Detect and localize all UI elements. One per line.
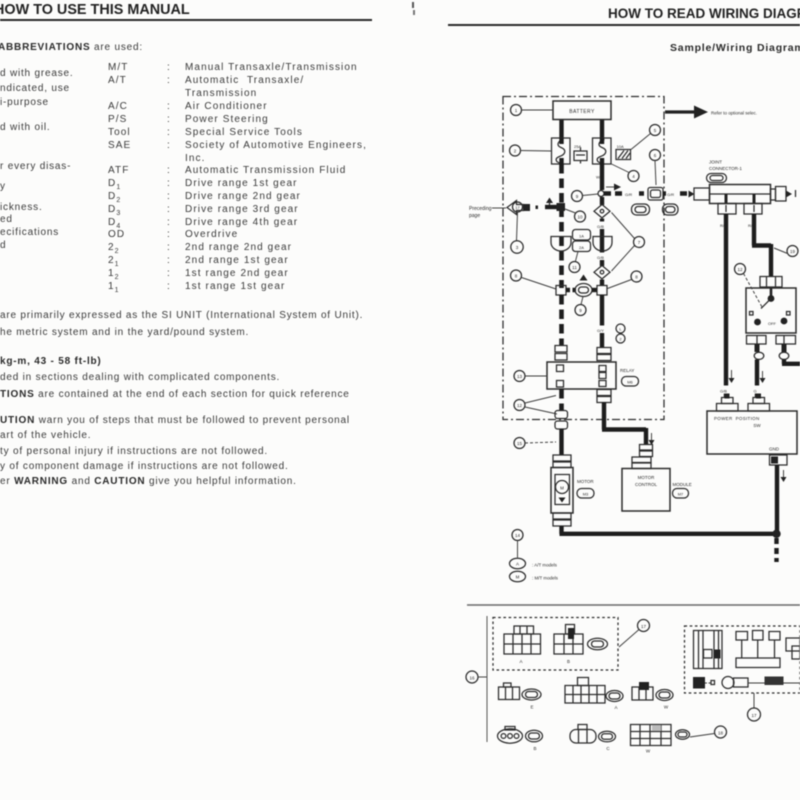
svg-text:M: M <box>516 575 520 580</box>
svg-text:E: E <box>530 705 533 710</box>
svg-text:W: W <box>664 705 669 710</box>
wire label G/B 2 <box>596 253 609 261</box>
bottom text block <box>0 310 363 321</box>
inline chain: hatched block <box>765 677 800 686</box>
svg-text:C: C <box>606 746 610 751</box>
svg-text:OFF: OFF <box>768 321 777 326</box>
relay box <box>547 362 634 389</box>
connector pair on right wire above relay <box>597 348 611 361</box>
svg-text:16: 16 <box>469 676 475 681</box>
callout 4 <box>612 164 640 182</box>
svg-text:W: W <box>646 749 651 754</box>
joint right end <box>771 187 796 202</box>
connector diamond 1 <box>594 197 610 224</box>
switch internals <box>750 288 791 326</box>
ref oval M1b <box>588 638 608 650</box>
preceding page text <box>469 206 506 219</box>
joint tab right <box>744 204 762 215</box>
svg-text:B: B <box>567 659 570 664</box>
gnd junction dot <box>772 530 780 562</box>
svg-text:MOTOR: MOTOR <box>638 475 655 480</box>
switch wire ovals <box>754 352 789 359</box>
joint connector box <box>710 185 771 204</box>
right feed wire lower <box>600 295 604 348</box>
svg-text:2: 2 <box>619 337 622 342</box>
ref oval M1 <box>632 204 650 215</box>
svg-text:18: 18 <box>718 731 724 736</box>
svg-text:M6: M6 <box>627 380 633 385</box>
bottom callout 16 <box>466 671 487 683</box>
dashed harness box <box>503 97 664 420</box>
svg-text:13: 13 <box>517 374 523 379</box>
right switch wire exits page <box>782 360 800 365</box>
svg-text:14: 14 <box>515 533 521 538</box>
joint pins <box>726 194 754 204</box>
mid row square connector R <box>597 286 607 296</box>
joint left end <box>689 188 710 200</box>
flow arrow right of node <box>606 184 621 191</box>
wire label R/B left <box>720 223 727 228</box>
module ref oval M7 <box>673 489 689 499</box>
left wire relay to motor <box>559 389 564 410</box>
motor top connector <box>553 455 571 468</box>
callout 9 <box>572 191 599 202</box>
callout 15 <box>514 438 556 449</box>
svg-text:11: 11 <box>572 265 577 270</box>
callout 17b <box>748 693 761 721</box>
switch feed wire <box>752 214 771 277</box>
callout 13 <box>514 371 547 382</box>
svg-text:MODULE: MODULE <box>673 482 692 487</box>
legend oval M/T <box>510 571 559 581</box>
callout 9b <box>575 297 586 316</box>
relay coil cup right <box>593 237 612 251</box>
svg-text:15: 15 <box>517 441 523 446</box>
switch bottom connector right <box>776 336 796 353</box>
svg-text:: M/T models: : M/T models <box>532 576 559 581</box>
svg-text:CONTROL: CONTROL <box>635 482 657 487</box>
keyhole pins <box>736 631 780 668</box>
bottom-left dashed box <box>493 618 618 671</box>
callout 16 <box>511 241 523 253</box>
connector E <box>499 683 520 700</box>
battery B+ wire left <box>559 119 563 138</box>
svg-text:GND: GND <box>769 447 780 452</box>
mid row square connector L <box>556 286 566 296</box>
svg-text:7: 7 <box>638 240 641 245</box>
wire label W/R <box>595 172 609 180</box>
up arrow over oval <box>580 275 588 281</box>
relay output wire to MCM <box>602 402 655 445</box>
left feed dashed wire lower <box>559 295 564 345</box>
svg-text:G/B: G/B <box>720 389 727 394</box>
G/R continuation <box>663 189 687 198</box>
connector V <box>632 682 653 700</box>
svg-text:5: 5 <box>654 128 657 133</box>
svg-text:G/B: G/B <box>597 255 604 260</box>
svg-text:6: 6 <box>654 153 657 158</box>
G wire down <box>752 360 766 399</box>
svg-text:G/Y: G/Y <box>597 328 604 333</box>
svg-text:POWER POSITION: POWER POSITION <box>714 416 760 421</box>
switch box <box>746 288 796 333</box>
motor bottom connector <box>553 513 571 526</box>
callout 11 <box>569 252 580 273</box>
hat connector right <box>748 394 770 412</box>
svg-text:CONNECTOR-1: CONNECTOR-1 <box>709 166 742 171</box>
svg-text:A: A <box>519 659 522 664</box>
gnd connector <box>770 455 788 465</box>
callout pair L/2 <box>616 324 625 343</box>
module label <box>673 482 692 487</box>
relay terminal label 2A <box>573 241 591 252</box>
partial connectors right edge <box>786 638 800 659</box>
joint connector label <box>709 160 742 172</box>
callout 5 <box>631 125 661 150</box>
callout 19 right edge <box>774 246 798 257</box>
switch top connector <box>760 277 782 288</box>
connector pair below box <box>555 411 568 456</box>
callout 8 left <box>511 270 557 289</box>
ref oval M8b <box>526 730 543 751</box>
svg-text:SW: SW <box>753 423 761 428</box>
svg-text:1: 1 <box>515 108 518 113</box>
callout 6 <box>650 150 661 186</box>
svg-text:page: page <box>469 213 480 219</box>
battery <box>553 101 611 120</box>
power position switch box <box>707 411 797 454</box>
joint ref oval M9 <box>707 174 727 183</box>
preceding page arrow <box>507 201 538 215</box>
svg-text:MOTOR: MOTOR <box>577 479 594 484</box>
svg-text:: A/T models: : A/T models <box>532 563 558 568</box>
MCM top connector <box>632 457 651 469</box>
big connector grid <box>631 725 672 754</box>
svg-text:M7: M7 <box>678 492 684 497</box>
svg-text:10A: 10A <box>617 144 624 149</box>
motor ref oval M3 <box>577 489 594 499</box>
svg-text:B: B <box>533 746 536 751</box>
round connector 3pin <box>498 727 523 744</box>
bracket line <box>486 616 488 742</box>
svg-text:Refer to optional selec.: Refer to optional selec. <box>711 111 757 116</box>
motor M8 <box>551 468 594 514</box>
legend oval A/T <box>510 558 558 568</box>
svg-text:M: M <box>560 486 564 491</box>
svg-text:8: 8 <box>635 275 638 280</box>
wire G/B mid <box>600 229 604 266</box>
ref oval M4 <box>522 689 541 710</box>
battery B+ wire right <box>600 119 604 138</box>
svg-text:G/B: G/B <box>597 224 604 229</box>
relay terminal label 1A <box>573 230 591 241</box>
svg-text:9: 9 <box>579 308 582 313</box>
callout 12 <box>735 264 763 308</box>
motor control module box <box>622 469 670 512</box>
svg-text:19: 19 <box>790 249 796 254</box>
callout 10 <box>565 209 586 222</box>
callout 14a <box>514 396 557 415</box>
G/B long wire <box>719 214 735 398</box>
G/R run to joint connector <box>604 189 646 198</box>
left cut-off fragments <box>0 68 73 79</box>
joint tab left <box>718 204 736 215</box>
MCM wire connector <box>640 445 653 457</box>
svg-text:G/R: G/R <box>667 192 674 197</box>
callout 14 legend <box>512 530 523 558</box>
junction (black square) <box>545 198 565 212</box>
hat connector left <box>717 394 739 412</box>
ref oval M12 <box>599 731 616 751</box>
abbreviation table <box>108 62 358 73</box>
relay coil cup left <box>551 237 571 252</box>
ref oval right <box>676 730 690 740</box>
svg-text:G: G <box>754 389 757 394</box>
svg-text:12: 12 <box>737 267 743 272</box>
svg-text:10: 10 <box>577 215 583 220</box>
svg-text:3: 3 <box>516 245 519 250</box>
wire label G/B <box>596 222 609 230</box>
svg-text:A: A <box>614 705 617 710</box>
svg-text:BATTERY: BATTERY <box>569 109 595 115</box>
callout 2 <box>510 145 552 156</box>
wire label R/B right <box>748 223 755 228</box>
fusible link right <box>593 138 612 164</box>
callout 17 on arrow <box>513 202 523 241</box>
svg-text:RELAY: RELAY <box>620 368 634 373</box>
relay ref oval M6 <box>622 377 639 387</box>
connector pair on left wire above relay <box>555 346 567 361</box>
inline chain: black square <box>693 677 715 689</box>
svg-text:JOINT: JOINT <box>709 160 722 165</box>
callout 17a <box>619 620 650 648</box>
pass-through connector M1 at box edge <box>648 188 663 201</box>
connector B <box>554 625 583 665</box>
connector C <box>570 725 596 744</box>
svg-text:Preceding: Preceding <box>469 206 492 212</box>
ref oval M5 <box>606 691 623 711</box>
ref oval M7b <box>656 690 673 710</box>
connector diamond 2 <box>594 266 610 286</box>
gnd wire <box>777 465 787 532</box>
svg-text:17: 17 <box>641 624 647 629</box>
ground run from motor <box>560 526 777 534</box>
callout 7 <box>612 213 645 272</box>
wire label G/Y <box>596 326 609 334</box>
right feed wire upper <box>600 164 604 190</box>
svg-text:8: 8 <box>515 274 518 279</box>
svg-text:M3: M3 <box>583 492 589 497</box>
left feed dashed wire upper <box>559 164 564 288</box>
fuse 10A (hatched) <box>616 144 631 160</box>
svg-text:2: 2 <box>514 149 517 154</box>
connector A <box>504 626 541 664</box>
svg-text:1A: 1A <box>579 234 584 239</box>
svg-text:A: A <box>516 562 519 567</box>
fusible link left <box>552 138 571 164</box>
fuse 25A <box>574 144 587 164</box>
svg-text:12: 12 <box>517 403 523 408</box>
bottom-right dashed box <box>685 626 800 693</box>
relay bottom connector pair <box>597 390 611 403</box>
callout 8 right <box>608 271 643 289</box>
inline chain: bullet connector <box>722 677 765 689</box>
tall connector <box>694 631 723 669</box>
node (open) <box>598 191 604 197</box>
callout 1 <box>511 105 554 116</box>
svg-text:9: 9 <box>576 194 579 199</box>
svg-text:17: 17 <box>751 713 757 718</box>
page separator line <box>467 604 800 606</box>
refer-to arrow <box>665 106 757 119</box>
svg-text:G/R: G/R <box>625 192 632 197</box>
svg-text:2A: 2A <box>579 245 584 250</box>
ref oval M2 <box>663 204 679 215</box>
svg-text:17: 17 <box>515 205 520 210</box>
switch bottom connector left <box>747 336 767 353</box>
mid row dashes and oval <box>566 284 597 297</box>
callout 18 <box>690 726 727 738</box>
svg-text:4: 4 <box>632 174 635 179</box>
svg-text:L: L <box>619 327 622 332</box>
connector W wide <box>565 678 605 704</box>
